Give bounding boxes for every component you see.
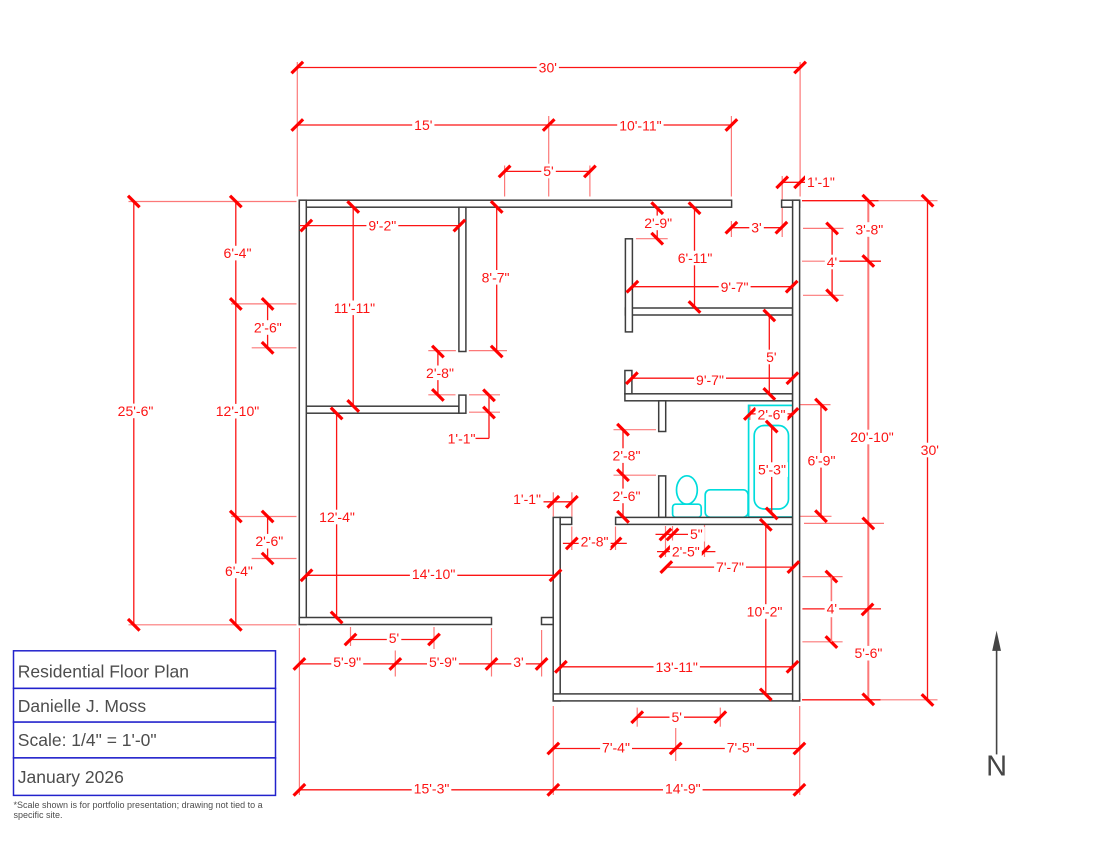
- bathroom top wall nib: [625, 371, 632, 394]
- ext line top-right corner: [799, 62, 801, 197]
- svg-text:2'-8": 2'-8": [613, 448, 641, 464]
- room1 bottom wall: [306, 406, 459, 413]
- svg-text:2'-6": 2'-6": [254, 320, 282, 336]
- dim 25'-6": [133, 202, 135, 625]
- ext line window upper top: [231, 303, 297, 305]
- ext line left wall top: [129, 201, 297, 203]
- svg-text:1'-1": 1'-1": [807, 174, 835, 190]
- ext line bath door top: [614, 429, 657, 431]
- dim 30' right: [927, 201, 929, 700]
- svg-text:6'-4": 6'-4": [224, 245, 252, 261]
- ext line front door left lower: [730, 221, 732, 237]
- dim 9'-2": [300, 225, 460, 227]
- svg-text:7'-4": 7'-4": [602, 740, 630, 756]
- svg-text:14'-9": 14'-9": [665, 780, 701, 796]
- ext line wall end row right: [469, 350, 507, 352]
- dim 4' lower right: [826, 571, 838, 583]
- ext line 7ft4 split: [675, 728, 677, 761]
- dim 5' hall: [768, 316, 770, 394]
- ref line top right: [802, 200, 879, 202]
- ext line back door left: [491, 628, 493, 677]
- svg-text:15'-3": 15'-3": [414, 781, 450, 797]
- svg-text:specific site.: specific site.: [14, 810, 63, 820]
- ext line nib 1ft1 left: [552, 492, 554, 516]
- ext line nib 1ft1 right: [571, 492, 573, 516]
- ext line back door right: [541, 630, 543, 677]
- bedroom 1 divider wall: [459, 207, 466, 351]
- svg-text:*Scale shown is for portfolio: *Scale shown is for portfolio presentati…: [14, 800, 263, 810]
- svg-text:30': 30': [921, 442, 939, 458]
- living room left wall: [553, 517, 560, 701]
- right exterior wall: [793, 200, 800, 701]
- svg-text:2'-8": 2'-8": [581, 534, 609, 550]
- svg-text:15': 15': [414, 117, 432, 133]
- room1 bottom wall jamb nib: [459, 395, 466, 413]
- svg-text:9'-2": 9'-2": [368, 218, 396, 234]
- ext line window5 right: [589, 166, 591, 197]
- ext line 15ft split: [548, 116, 550, 197]
- dim 5' window top: [505, 170, 590, 172]
- svg-text:2'-9": 2'-9": [644, 215, 672, 231]
- ext line bottom-right row outer: [881, 699, 938, 701]
- dim 5'-3" tub length: [771, 427, 773, 514]
- ext line wall end row left: [428, 350, 456, 352]
- dim 6'-11": [694, 208, 696, 307]
- svg-text:6'-9": 6'-9": [808, 452, 836, 468]
- bathtub outer: [749, 405, 793, 517]
- living room wall top nib: [560, 517, 572, 524]
- svg-text:12'-10": 12'-10": [216, 403, 259, 419]
- ext line 20ft10 bottom: [804, 522, 884, 524]
- title block: [14, 651, 276, 689]
- svg-text:9'-7": 9'-7": [696, 372, 724, 388]
- left exterior wall: [299, 200, 306, 624]
- svg-text:10'-2": 10'-2": [747, 604, 783, 620]
- ext line closet nib left: [428, 394, 455, 396]
- ext line front door left: [730, 116, 732, 197]
- dim 2'-6" tub width: [750, 413, 793, 415]
- ext line 5ft9 split: [394, 651, 396, 677]
- dim 2'-8" closet door: [437, 352, 439, 395]
- dim 4prime lower horizontal: [802, 608, 881, 610]
- svg-text:3': 3': [513, 654, 523, 670]
- ext line vanity left: [704, 520, 706, 557]
- ext line bath door bottom: [614, 474, 657, 476]
- ext line window upper bottom: [252, 347, 297, 349]
- ext line right top row outer: [879, 200, 938, 202]
- dim 10'-11": [549, 124, 732, 126]
- bedroom 2 bottom wall: [625, 308, 792, 315]
- dim 15'-3" and 14'-9": [299, 789, 799, 791]
- bedroom 2 left wall: [625, 239, 632, 332]
- ext line bottom-right corner: [799, 706, 801, 795]
- svg-text:3'-8": 3'-8": [855, 222, 883, 238]
- dim 1'-1" nib: [483, 390, 495, 402]
- svg-text:20'-10": 20'-10": [850, 429, 893, 445]
- svg-text:2'-8": 2'-8": [426, 365, 454, 381]
- dim 30' top: [297, 67, 800, 69]
- ext line top-left corner: [296, 62, 298, 197]
- svg-text:3': 3': [751, 220, 761, 236]
- bathroom left wall upper: [659, 401, 666, 432]
- dim 2'-6" window upper: [267, 304, 269, 348]
- dim 1'-1" top right: [782, 181, 806, 183]
- dim column 6'-4" 12'-10" 6'-4": [235, 202, 237, 625]
- dim 4' upper right: [831, 228, 833, 295]
- dim 11'-11": [352, 207, 354, 406]
- dim 5'-9" 5'-9" 3': [299, 663, 541, 665]
- ext line 4ft upper bottom: [803, 294, 844, 296]
- ext line 6ft9 top: [797, 404, 831, 406]
- ext line porch left: [350, 627, 352, 646]
- svg-text:25'-6": 25'-6": [118, 403, 154, 419]
- dim 2'-9": [656, 208, 658, 239]
- svg-text:9'-7": 9'-7": [721, 279, 749, 295]
- bottom-right exterior wall: [553, 694, 799, 701]
- ext line 4ft upper top: [803, 227, 844, 229]
- svg-text:13'-11": 13'-11": [655, 659, 697, 675]
- ext line window bottom left: [636, 708, 638, 727]
- svg-text:Residential Floor Plan: Residential Floor Plan: [18, 662, 189, 682]
- ext line 4ft upper left stub: [802, 260, 826, 262]
- toilet tank: [673, 504, 702, 517]
- svg-text:5'-9": 5'-9": [429, 654, 457, 670]
- ref line bottom right: [802, 699, 881, 701]
- svg-text:6'-11": 6'-11": [678, 250, 713, 266]
- ext line closet nib right: [469, 394, 500, 396]
- ext line 2ft9 bottom: [636, 238, 668, 240]
- svg-text:12'-4": 12'-4": [319, 509, 355, 525]
- ext line living room left: [552, 706, 554, 795]
- svg-text:5'-9": 5'-9": [333, 654, 361, 670]
- svg-text:5': 5': [766, 349, 776, 365]
- svg-text:5'-3": 5'-3": [758, 462, 786, 478]
- ext line 4ft lower top: [802, 576, 842, 578]
- svg-text:N: N: [986, 750, 1007, 782]
- hall bottom wall: [616, 517, 793, 524]
- dim 5' porch: [351, 639, 435, 641]
- ext line toilet gap right: [672, 526, 674, 541]
- dim 12'-4": [336, 413, 338, 617]
- svg-text:4': 4': [827, 601, 837, 617]
- svg-text:5': 5': [389, 630, 399, 646]
- ext line hall door right: [615, 527, 617, 551]
- svg-text:January 2026: January 2026: [18, 767, 124, 787]
- dim 9'-7" bathroom: [632, 377, 793, 379]
- ext line nib bottom right: [469, 411, 500, 413]
- bottom-left exterior wall: [299, 618, 491, 625]
- dim 6'-9": [820, 405, 822, 517]
- top wall left segment: [299, 200, 731, 207]
- svg-text:2'-5": 2'-5": [672, 544, 700, 560]
- dim 7'-7": [666, 566, 793, 568]
- dim 2'-6" bath wall: [622, 475, 624, 517]
- dim 15': [297, 124, 548, 126]
- ext line window lower bottom: [252, 558, 297, 560]
- svg-text:14'-10": 14'-10": [412, 566, 455, 582]
- bathtub inner: [754, 426, 788, 510]
- dim 9'-7" bedroom2: [632, 286, 791, 288]
- ext line window bottom right: [719, 708, 721, 727]
- dim 2'-8" hall door: [563, 542, 627, 544]
- ext line front door right: [781, 176, 783, 237]
- bathroom left wall lower: [659, 476, 666, 518]
- dim 10'-2": [765, 525, 767, 695]
- ext line bottom-left corner: [298, 628, 300, 795]
- svg-text:5": 5": [690, 526, 703, 542]
- ext line left wall bottom: [129, 624, 297, 626]
- ext line 4ft lower bottom: [802, 641, 842, 643]
- svg-text:7'-7": 7'-7": [716, 559, 744, 575]
- dim column 3'-8" 20'-10" 5'-6": [867, 201, 869, 700]
- svg-text:30': 30': [539, 60, 557, 76]
- svg-text:7'-5": 7'-5": [727, 740, 755, 756]
- top wall right segment: [782, 200, 800, 207]
- svg-text:6'-4": 6'-4": [225, 563, 253, 579]
- dim 14'-10": [307, 574, 556, 576]
- svg-text:5': 5': [543, 163, 553, 179]
- ext line 6ft9 bottom: [795, 515, 832, 517]
- svg-text:2'-6": 2'-6": [758, 407, 786, 423]
- svg-text:2'-6": 2'-6": [613, 488, 641, 504]
- ext line window5 left: [504, 166, 506, 197]
- dim 8'-7": [496, 207, 498, 352]
- toilet bowl: [677, 476, 698, 504]
- ext line toilet gap left: [665, 526, 667, 557]
- bathroom top wall: [625, 394, 793, 401]
- north arrow: [996, 648, 998, 754]
- ext line hall door left: [571, 527, 573, 551]
- svg-text:5'-6": 5'-6": [854, 645, 882, 661]
- ext line window lower top: [231, 516, 297, 518]
- dim 1'-1" living nib: [544, 501, 572, 503]
- ext line tub left: [749, 406, 751, 421]
- dim 13'-11": [561, 666, 793, 668]
- dim 4ft upper horizontal segment: [838, 260, 881, 262]
- svg-text:1'-1": 1'-1": [448, 430, 476, 446]
- sink vanity: [705, 490, 748, 517]
- svg-text:11'-11": 11'-11": [334, 300, 375, 316]
- dim 5" toilet gap: [656, 533, 689, 535]
- svg-text:Danielle J. Moss: Danielle J. Moss: [18, 696, 147, 716]
- svg-text:2'-6": 2'-6": [255, 533, 283, 549]
- svg-text:8'-7": 8'-7": [482, 269, 510, 285]
- living room wall bottom nib: [542, 618, 554, 625]
- svg-text:5': 5': [671, 709, 681, 725]
- dim 5' window bottom: [637, 716, 720, 718]
- svg-text:10'-11": 10'-11": [619, 117, 661, 133]
- svg-text:4': 4': [827, 254, 837, 270]
- dim 3' front door: [731, 227, 781, 229]
- dim 7'-4" and 7'-5": [553, 748, 799, 750]
- dim 2'-8" bath door: [622, 430, 624, 476]
- svg-text:Scale: 1/4" = 1'-0": Scale: 1/4" = 1'-0": [18, 730, 157, 750]
- svg-text:1'-1": 1'-1": [513, 491, 541, 507]
- ext line porch right: [433, 627, 435, 649]
- dim 2'-5": [657, 551, 715, 553]
- dim 2'-6" window lower: [267, 517, 269, 559]
